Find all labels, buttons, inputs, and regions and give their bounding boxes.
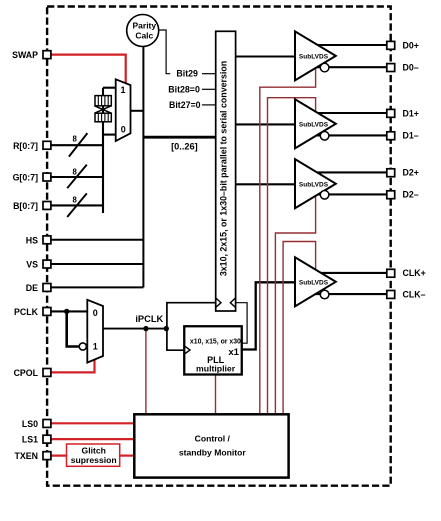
svg-text:SubLVDS: SubLVDS	[299, 122, 329, 129]
svg-text:standby Monitor: standby Monitor	[179, 447, 246, 457]
svg-text:Bit27=0: Bit27=0	[169, 100, 201, 110]
svg-text:8: 8	[73, 134, 78, 143]
svg-text:[0..26]: [0..26]	[171, 141, 198, 151]
svg-text:CLK–: CLK–	[403, 289, 426, 299]
svg-text:multiplier: multiplier	[196, 364, 236, 374]
svg-text:D2–: D2–	[403, 190, 419, 200]
svg-text:D1–: D1–	[403, 131, 419, 141]
svg-text:Glitch: Glitch	[82, 445, 106, 455]
svg-text:8: 8	[73, 168, 78, 177]
svg-text:G[0:7]: G[0:7]	[13, 173, 38, 183]
svg-text:CPOL: CPOL	[14, 368, 39, 378]
svg-text:Bit29: Bit29	[176, 68, 198, 78]
svg-text:1: 1	[120, 85, 125, 95]
svg-text:SubLVDS: SubLVDS	[299, 182, 329, 189]
svg-text:3x10, 2x15, or 1x30–bit parall: 3x10, 2x15, or 1x30–bit parallel to seri…	[219, 61, 229, 276]
svg-text:Parity: Parity	[132, 21, 156, 31]
svg-text:0: 0	[93, 308, 98, 318]
svg-text:PCLK: PCLK	[14, 307, 39, 317]
svg-text:Control /: Control /	[195, 434, 231, 444]
svg-text:8: 8	[73, 196, 78, 205]
svg-text:Bit28=0: Bit28=0	[168, 85, 200, 95]
svg-text:x1: x1	[228, 347, 239, 358]
svg-text:LS1: LS1	[22, 435, 38, 445]
svg-text:R[0:7]: R[0:7]	[13, 141, 38, 151]
svg-text:B[0:7]: B[0:7]	[13, 201, 38, 211]
svg-text:CLK+: CLK+	[403, 268, 426, 278]
svg-text:supression: supression	[71, 455, 117, 465]
svg-text:SWAP: SWAP	[12, 50, 38, 60]
svg-text:Calc: Calc	[135, 31, 153, 41]
svg-text:LS0: LS0	[22, 419, 38, 429]
svg-text:1: 1	[93, 341, 98, 351]
svg-text:SubLVDS: SubLVDS	[299, 54, 329, 61]
svg-text:D0–: D0–	[403, 63, 419, 73]
svg-text:x10, x15, or x30: x10, x15, or x30	[190, 339, 241, 346]
svg-text:TXEN: TXEN	[15, 451, 38, 461]
svg-text:HS: HS	[26, 235, 38, 245]
svg-text:DE: DE	[26, 283, 38, 293]
svg-text:iPCLK: iPCLK	[135, 314, 163, 324]
svg-text:D1+: D1+	[403, 108, 419, 118]
svg-text:0: 0	[121, 124, 126, 134]
svg-text:D2+: D2+	[403, 168, 419, 178]
svg-text:VS: VS	[26, 260, 38, 270]
svg-text:D0+: D0+	[403, 40, 419, 50]
svg-text:SubLVDS: SubLVDS	[299, 280, 329, 287]
